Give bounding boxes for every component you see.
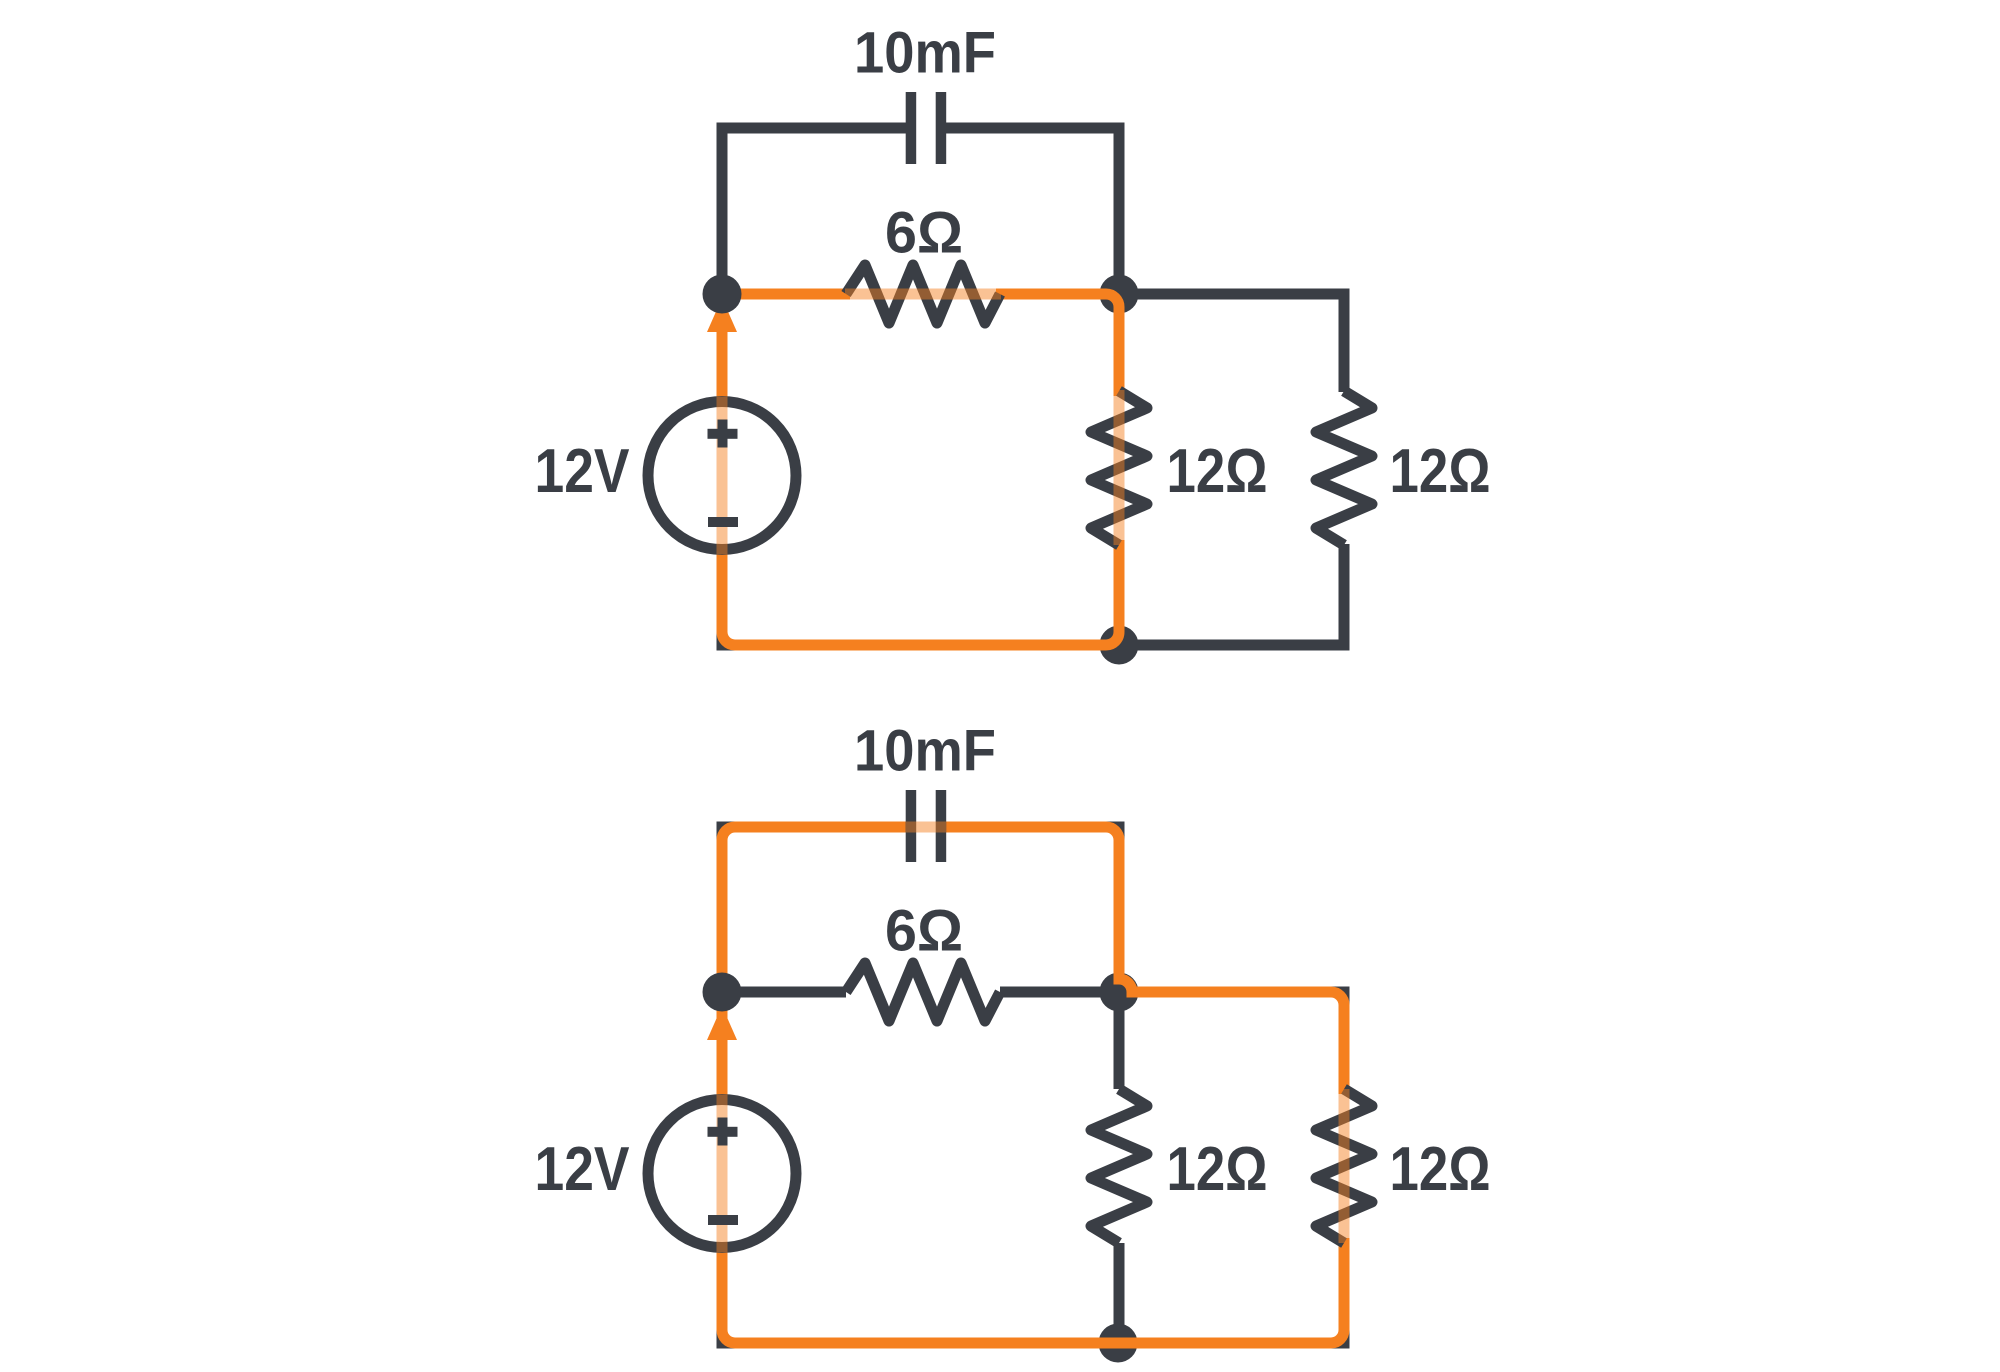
voltage source V2 12V (circle) [648,1100,796,1248]
resistor R5 12Ω (middle vertical) [1091,1089,1147,1243]
svg-text:12Ω: 12Ω [1167,437,1268,506]
label: 6Ω (C2) [885,899,963,964]
current highlight loop C2: capacitor right, down to node E, right and down to R6 [946,827,1344,1094]
wire: C2 main branch left stub (node D to R4) [722,987,846,998]
svg-text:12Ω: 12Ω [1390,437,1491,506]
highlight overlay across capacitor C2 [906,822,946,833]
current direction arrowhead C2 (up, below node D) [707,1006,737,1040]
highlight overlay across R2 [1114,390,1125,545]
svg-text:12Ω: 12Ω [1390,1135,1491,1204]
label: 10mF (C2) [854,719,996,784]
wire: C2 main branch right stub (R4 to node E) [1000,987,1119,998]
highlight overlay across R1 [845,289,1001,300]
voltage source V1 minus symbol [708,517,738,527]
label: 12Ω middle (C2) [1167,1135,1268,1204]
wire: C1 bottom-left corner (under highlight) [722,560,1119,645]
svg-text:12V: 12V [535,437,630,506]
label: 12V (C1) [535,437,630,506]
svg-text:10mF: 10mF [854,719,996,784]
label: 12Ω right (C2) [1390,1135,1491,1204]
current highlight loop C1: segment source top to node A [717,320,728,397]
wire: C2 middle branch (node E down to R5, R5 to bottom node F) [1114,992,1125,1343]
voltage source V2 plus symbol [708,1118,738,1146]
resistor R6 12Ω (right vertical) [1316,1089,1372,1243]
node A (top-left junction) [703,275,742,314]
node F (bottom junction C2, under highlight) [1099,1324,1138,1363]
highlight overlay across R6 [1339,1089,1350,1243]
label: 6Ω (C1) [885,201,963,266]
wire: C2 capacitor branch left (node D up, right to left plate) [722,827,906,992]
svg-text:12V: 12V [535,1135,630,1204]
label: 12V (C2) [535,1135,630,1204]
node C (bottom-middle junction, under highlight) [1100,626,1139,665]
label: 10mF (C1) [854,21,996,86]
current highlight loop C2: source top up to corner, right to capacitor [722,827,906,1095]
wire: C2 right branch (under highlight) [722,992,1344,1343]
voltage source V1 plus symbol [708,420,738,448]
node E (top-middle junction C2, under highlight) [1100,973,1139,1012]
svg-text:6Ω: 6Ω [885,899,963,964]
voltage source V2 minus symbol [708,1215,738,1225]
label: 12Ω right (C1) [1390,437,1491,506]
voltage source V1 12V (circle) [648,402,796,550]
resistor R1 6Ω (horizontal) [846,265,1000,323]
label: 12Ω middle (C1) [1167,437,1268,506]
highlight overlay across V1 [717,397,728,555]
highlight overlay across V2 [717,1095,728,1253]
svg-text:12Ω: 12Ω [1167,1135,1268,1204]
current highlight loop C1: segment R1 to node B, down to R2 [996,294,1119,396]
capacitor C1 plates (10mF) [906,92,947,164]
resistor R2 12Ω (middle vertical) [1091,391,1147,545]
resistor R4 6Ω (horizontal) [846,963,1000,1021]
current highlight loop C2: R6 bottom, bottom wire, up to source bottom [722,1238,1344,1343]
wire: C2 capacitor branch right (right plate to node E) [946,827,1119,992]
svg-text:6Ω: 6Ω [885,201,963,266]
current direction arrowhead C1 (up, below node A) [707,298,737,332]
node B (top-middle junction, under highlight) [1100,275,1139,314]
resistor R3 12Ω (right vertical) [1316,391,1372,545]
node D (top-left junction C2) [703,973,742,1012]
wire: C1 right branch (node B right, down to R3 top; R3 bottom to bottom wire back to node C) [1119,294,1344,645]
wire: C1 capacitor branch right (right plate to node B) [946,128,1119,294]
current highlight loop C1: segment node A to R1 [722,289,850,300]
capacitor C2 plates (10mF) [906,790,947,862]
current highlight loop C1: segment R2 bottom, bottom wire, up to source [722,540,1119,645]
svg-text:10mF: 10mF [854,21,996,86]
wire: C1 capacitor branch left (node A up, right to left plate) [722,128,906,294]
